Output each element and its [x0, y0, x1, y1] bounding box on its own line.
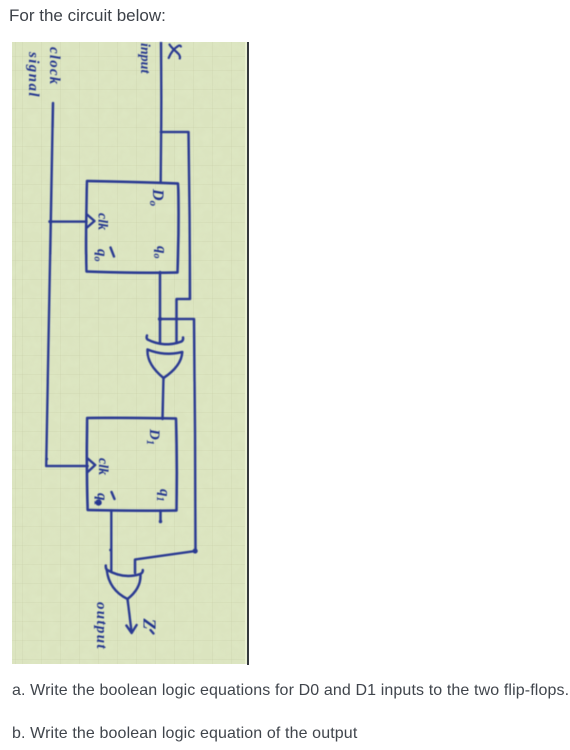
svg-text:clk: clk: [95, 213, 110, 230]
wire input branch to XOR: [161, 132, 190, 343]
wire clock branch to U2 clk: [46, 465, 88, 467]
flip-flop U1 (D0): [86, 181, 179, 273]
wire Q0 to XOR: [159, 272, 161, 343]
flourish under Z: [151, 630, 154, 634]
wire output arrow Z: [126, 599, 136, 633]
wire input x: [159, 42, 162, 182]
node clock branch junction: [48, 220, 51, 223]
svg-text:Do: Do: [147, 188, 166, 207]
label x (cursive chi, drawn): [169, 45, 181, 59]
wire Q1bar to OR: [110, 511, 112, 572]
node small tick on Q1bar wire: [109, 549, 112, 552]
wire Q1 stub: [159, 511, 161, 522]
svg-text:qo: qo: [151, 246, 169, 259]
wire Q0 feedback rail to OR: [160, 319, 196, 551]
wire clock rail: [46, 103, 53, 466]
wire clock branch to U1 clk: [50, 220, 87, 222]
svg-text:Z: Z: [140, 618, 160, 630]
ink blob near q1bar: [95, 499, 101, 505]
flip-flop U2 (D1): [87, 418, 177, 511]
svg-text:D1: D1: [144, 428, 162, 445]
node feedback corner blob: [193, 548, 198, 553]
svg-text:output: output: [93, 602, 109, 650]
OR gate back arc: [106, 566, 143, 576]
svg-text:clock: clock: [46, 47, 62, 85]
svg-text:input: input: [137, 43, 152, 74]
overbar of label q0bar: [111, 248, 115, 257]
node Q1 stub end dot: [159, 520, 163, 524]
svg-text:qo: qo: [92, 249, 110, 262]
node input branch junction: [160, 131, 163, 134]
XOR gate back arc: [147, 336, 184, 345]
svg-text:q1: q1: [154, 489, 172, 502]
node tick on clock rail: [45, 458, 48, 461]
svg-text:clk: clk: [95, 458, 110, 475]
overbar of label q1bar: [112, 492, 115, 499]
node Q0 branch junction: [158, 317, 162, 321]
wire XOR output to D1: [163, 378, 164, 419]
wire feedback drop into OR input: [135, 551, 196, 573]
OR gate body: [107, 570, 141, 599]
XOR gate body: [147, 350, 182, 379]
svg-text:q1: q1: [92, 493, 110, 506]
clock input wedge U1: [87, 215, 95, 228]
clock input wedge U2: [88, 459, 96, 473]
photo of hand-drawn circuit on green quad paper: [12, 42, 247, 664]
svg-text:signal: signal: [25, 51, 41, 98]
